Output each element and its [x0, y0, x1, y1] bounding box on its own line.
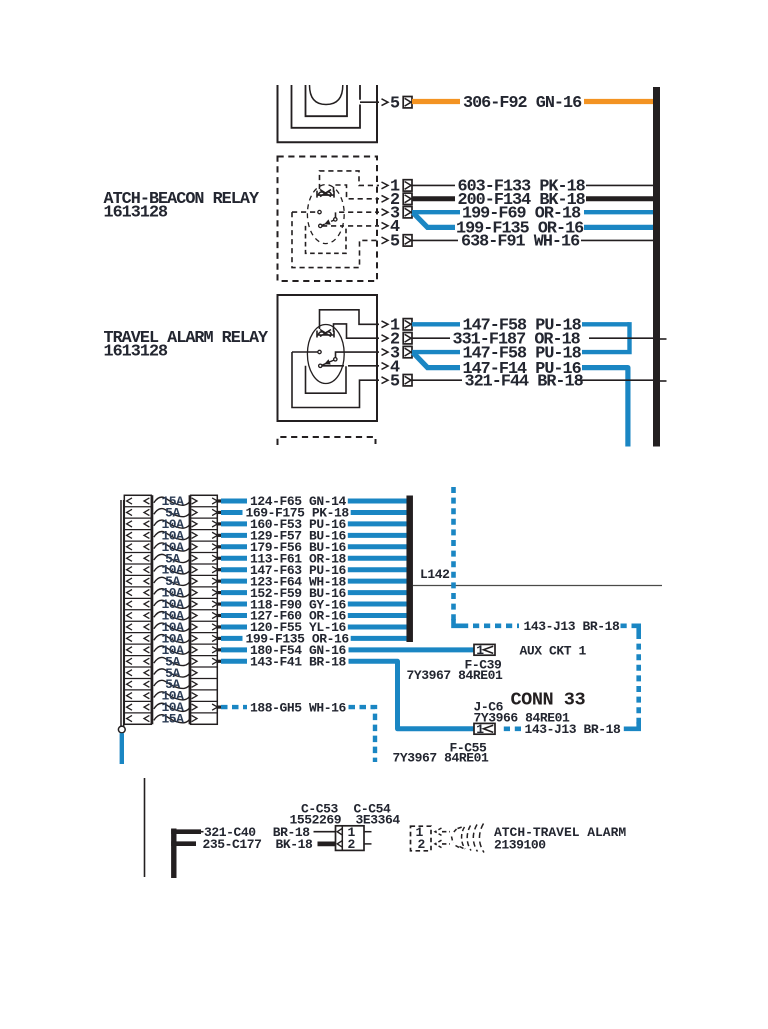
fuse row 13: right connector arrows	[192, 635, 197, 641]
fuse element squiggle row 13	[154, 635, 191, 643]
blue supply stub below node	[120, 733, 124, 764]
svg-text:1613128: 1613128	[104, 204, 169, 223]
fuse F row 1: left connector arrows	[127, 498, 132, 504]
pin arrow 2 (travel relay)	[382, 335, 389, 342]
wire 120-F55 YL-16 (blue)	[221, 624, 247, 629]
fuse row 7: right connector arrows	[192, 567, 197, 573]
pin arrow 3 (travel relay)	[382, 349, 389, 356]
beacon relay oval body	[307, 185, 344, 244]
wire 235-C177 BK-18 (thick stub into pin2)	[318, 842, 336, 847]
fuse row divider 2	[124, 517, 151, 519]
svg-text:7Y3967 84RE01: 7Y3967 84RE01	[393, 751, 489, 766]
svg-text:143-F41 BR-18: 143-F41 BR-18	[250, 655, 346, 670]
dashed pin 2 arrow	[435, 840, 442, 847]
fuse row 12: right connector arrows	[192, 624, 197, 630]
beacon relay lead pin4	[322, 225, 344, 227]
fuse row 15: right connector arrows	[192, 658, 197, 664]
fuse element squiggle row 18	[154, 692, 191, 700]
fuse F row 10: left connector arrows	[127, 601, 132, 607]
fuse row divider 6	[124, 563, 151, 565]
fuse panel supply bus (double vertical)	[120, 500, 122, 727]
svg-text:321-F44 BR-18: 321-F44 BR-18	[465, 373, 584, 392]
fuse row divider 8	[124, 586, 151, 588]
fuse row 18: right connector arrows	[192, 693, 197, 699]
fuse element squiggle row 7	[154, 566, 191, 574]
pin arrow 1 (travel relay)	[382, 321, 389, 328]
wire stub nub row 1	[217, 499, 221, 502]
fuse element squiggle row 2	[154, 509, 191, 517]
wire stub past bus, pin2 travel relay	[660, 338, 667, 340]
fuse element squiggle row 19	[154, 703, 191, 711]
fuse row divider 19	[124, 712, 151, 714]
fuse row 20: right connector arrows	[192, 715, 197, 721]
top relay outer box (cut off at page top)	[278, 85, 378, 142]
pin arrow 5 (travel relay)	[382, 377, 389, 384]
svg-text:L142: L142	[420, 567, 450, 582]
pin arrow 4 (beacon relay)	[382, 222, 389, 229]
fuse element squiggle row 5	[154, 543, 191, 551]
svg-text:306-F92 GN-16: 306-F92 GN-16	[463, 94, 582, 113]
top relay inner box	[306, 85, 348, 116]
fuse panel right box column frame	[191, 495, 218, 724]
fuse row divider 15	[124, 666, 151, 668]
beacon relay lead pin2 coil right	[334, 185, 380, 199]
wire 199-F135 OR-16 (blue, diagonal from pin 3 area)	[413, 213, 455, 228]
pin arrow 1 (beacon relay)	[382, 182, 389, 189]
wire 200-F134 BK-18 (thick black)	[412, 196, 455, 201]
C-C53 right ticks	[364, 831, 372, 833]
pin 5 connector	[403, 97, 412, 108]
fuse row 10: right connector arrows	[192, 601, 197, 607]
power bus bar (thick vertical)	[653, 87, 660, 447]
wire 124-F65 GN-14 (blue)	[221, 499, 247, 504]
C-C53 pin 2 wedge	[337, 841, 342, 848]
svg-text:15A: 15A	[161, 712, 184, 727]
wire stub nub row 10	[217, 602, 221, 605]
fuse F row 6: left connector arrows	[127, 555, 132, 561]
fuse holder mating bars	[151, 495, 153, 724]
travel relay inner box	[306, 366, 347, 393]
rule line L142	[413, 585, 662, 587]
travel relay oval body	[307, 325, 344, 384]
wire 321-F44 BR-18 (pin5)	[412, 379, 462, 381]
wire stub nub row 12	[217, 625, 221, 628]
fuse F row 7: left connector arrows	[127, 567, 132, 573]
wire stub nub row 3	[217, 522, 221, 525]
next component dashed box (cut off)	[278, 437, 376, 445]
wire 321-C40 BR-18	[201, 831, 204, 833]
travel relay outer box	[278, 295, 378, 421]
fuse row 14: right connector arrows	[192, 647, 197, 653]
fuse row divider 11	[124, 620, 151, 622]
fuse element squiggle row 1	[154, 497, 191, 505]
fuse row 4: right connector arrows	[192, 532, 197, 538]
fuse row 3: right connector arrows	[192, 521, 197, 527]
pin arrow 4 (travel relay)	[382, 363, 389, 370]
fuse row divider 18	[124, 700, 151, 702]
beacon relay lead pin3	[336, 212, 380, 217]
pin 5 connector (beacon relay)	[403, 235, 412, 246]
wire stub nub row 13	[217, 637, 221, 640]
wire stub past bus, pin5 travel relay	[660, 380, 667, 382]
beacon relay switch arm	[322, 220, 334, 225]
wire stub nub row 19	[217, 705, 221, 708]
dashed vertical right	[636, 633, 641, 724]
beacon relay coil symbol	[317, 190, 334, 198]
wire 143-F41 BR-18 (blue L to F-C55)	[221, 659, 247, 664]
fuse row divider 7	[124, 574, 151, 576]
fuse F row 16: left connector arrows	[127, 670, 132, 676]
svg-text:5: 5	[390, 373, 400, 392]
pin 3 connector (travel relay)	[403, 346, 412, 357]
travel relay lead pin3	[336, 352, 380, 357]
svg-text:1552269: 1552269	[290, 812, 342, 827]
blue vertical drop of 147-F14	[582, 368, 628, 447]
pin 2 connector (beacon relay)	[403, 193, 412, 204]
fuse row divider 14	[124, 655, 151, 657]
pin 1 connector (travel relay)	[403, 319, 412, 330]
fuse row 2: right connector arrows	[192, 509, 197, 515]
dashed corner right	[634, 626, 639, 633]
wire 188-GH5 WH-16 (dashed blue)	[221, 705, 247, 709]
fuse F row 2: left connector arrows	[127, 509, 132, 515]
fuse panel left box column frame	[124, 495, 151, 724]
beacon relay outer dashed box	[278, 157, 378, 282]
fuse row 19: right connector arrows	[192, 704, 197, 710]
fuse row divider 3	[124, 529, 151, 531]
wire 147-F14 PU-16 (blue, diagonal from pin3 area)	[413, 353, 460, 368]
wire stub nub row 7	[217, 568, 221, 571]
svg-text:143-J13 BR-18: 143-J13 BR-18	[524, 619, 620, 634]
wire stub nub row 4	[217, 534, 221, 537]
wire 169-F175 PK-18 (blue)	[221, 510, 243, 515]
wire 603-F133 PK-18	[412, 184, 455, 186]
svg-text:AUX CKT 1: AUX CKT 1	[520, 644, 587, 659]
wire 147-F58 PU-18 (pin3, blue)	[412, 350, 460, 354]
wire 129-F57 BU-16 (blue)	[221, 533, 247, 538]
fuse row divider 12	[124, 632, 151, 634]
wire 199-F135 OR-16 (blue)	[221, 636, 243, 641]
svg-text:235-C177: 235-C177	[203, 837, 262, 852]
fuse F row 3: left connector arrows	[127, 521, 132, 527]
wire 160-F53 PU-16 (blue)	[221, 521, 247, 526]
fuse F row 20: left connector arrows	[127, 715, 132, 721]
fuse F row 12: left connector arrows	[127, 624, 132, 630]
wire stub nub row 9	[217, 591, 221, 594]
blue U-link pin1 to pin3	[582, 322, 630, 352]
fuse row divider 9	[124, 597, 151, 599]
top relay pin 5 lead	[360, 101, 379, 103]
travel relay lead pin4	[322, 365, 344, 367]
dashed wire 143-J13 BR-18 horizontal	[462, 623, 519, 628]
fuse element squiggle row 12	[154, 623, 191, 631]
pin 5 connector (travel relay)	[403, 375, 412, 386]
svg-text:1: 1	[476, 643, 484, 658]
dashed corner bottom	[630, 722, 639, 729]
fuse row 17: right connector arrows	[192, 681, 197, 687]
fuse element squiggle row 8	[154, 577, 191, 585]
pin 3 connector (beacon relay)	[403, 207, 412, 218]
travel relay switch arm	[322, 360, 334, 365]
wire 638-F91 WH-16	[412, 239, 458, 241]
pin arrow 5	[382, 99, 389, 106]
wire 199-F69 OR-18 (blue)	[412, 210, 460, 214]
horn radiating dashes	[473, 825, 477, 852]
dashed corner	[454, 619, 463, 626]
fuse row 9: right connector arrows	[192, 590, 197, 596]
fuse element squiggle row 14	[154, 646, 191, 654]
wire 179-F56 BU-16 (blue)	[221, 544, 247, 549]
fuse F row 17: left connector arrows	[127, 681, 132, 687]
horn mouth arcs	[462, 827, 465, 849]
ATCH-TRAVEL ALARM dashed connector box	[411, 826, 432, 851]
wire 118-F90 GY-16 (blue)	[221, 602, 247, 607]
wire stub nub row 15	[217, 660, 221, 663]
wire 152-F59 BU-16 (blue)	[221, 590, 247, 595]
travel relay lead pin2 coil right	[334, 324, 380, 338]
wire 147-F63 PU-16 (blue)	[221, 567, 247, 572]
wire 147-F58 PU-18 (pin1, blue)	[412, 322, 460, 326]
travel relay lead to left contact	[292, 351, 318, 353]
pin arrow 2 (beacon relay)	[382, 195, 389, 202]
beacon relay lead pin5 + middle box	[292, 212, 379, 268]
pin 1 connector (beacon relay)	[403, 180, 412, 191]
svg-text:CONN 33: CONN 33	[511, 690, 586, 711]
svg-text:BK-18: BK-18	[276, 837, 313, 852]
svg-text:5: 5	[390, 233, 400, 252]
beacon relay switch contacts	[318, 210, 321, 213]
fuse element squiggle row 4	[154, 531, 191, 539]
fuse F row 13: left connector arrows	[127, 635, 132, 641]
fuse row divider 5	[124, 552, 151, 554]
fuse row 6: right connector arrows	[192, 555, 197, 561]
wire stub nub row 14	[217, 648, 221, 651]
fuse F row 8: left connector arrows	[127, 578, 132, 584]
fuse panel output bus bar (thick vertical)	[406, 496, 413, 643]
fuse row divider 16	[124, 677, 151, 679]
svg-text:2: 2	[418, 837, 426, 852]
connector C-C53 box	[336, 826, 365, 851]
connector F-C55 (1<)	[474, 723, 495, 734]
fuse row divider 17	[124, 689, 151, 691]
fuse element squiggle row 16	[154, 669, 191, 677]
svg-text:2: 2	[348, 837, 356, 852]
pin 2 connector (travel relay)	[403, 333, 412, 344]
wire stub nub row 6	[217, 557, 221, 560]
fuse F row 4: left connector arrows	[127, 532, 132, 538]
dashed wire 143-J13 BR-18 vertical from top	[451, 487, 456, 621]
travel relay lead pin5 + middle box	[292, 352, 379, 408]
svg-text:5: 5	[390, 95, 400, 114]
fuse F row 15: left connector arrows	[127, 658, 132, 664]
wire stub nub row 11	[217, 614, 221, 617]
travel relay lead pin1 over coil	[320, 310, 380, 329]
svg-text:188-GH5 WH-16: 188-GH5 WH-16	[250, 700, 346, 715]
fuse F row 11: left connector arrows	[127, 612, 132, 618]
svg-text:1613128: 1613128	[104, 343, 169, 362]
beacon relay lead pin1 over coil	[320, 171, 380, 189]
wire 113-F61 OR-18 (blue)	[221, 556, 247, 561]
svg-text:7Y3967 84RE01: 7Y3967 84RE01	[407, 668, 503, 683]
wire 331-F187 OR-18 (pin2)	[412, 337, 450, 339]
connector F-C39 (1<)	[474, 644, 495, 655]
fuse row divider 10	[124, 609, 151, 611]
fuse bus node circle	[118, 726, 125, 733]
pin arrow 5 (beacon relay)	[382, 237, 389, 244]
fuse row 5: right connector arrows	[192, 544, 197, 550]
svg-text:2139100: 2139100	[494, 837, 546, 852]
fuse element squiggle row 3	[154, 520, 191, 528]
travel relay coil symbol	[317, 330, 334, 338]
fuse row divider 13	[124, 643, 151, 645]
dashed pin 1 arrow	[435, 828, 442, 835]
svg-text:1: 1	[476, 722, 484, 737]
fuse row 16: right connector arrows	[192, 670, 197, 676]
wire stub nub row 8	[217, 580, 221, 583]
top relay coil U-curve	[310, 85, 343, 105]
alarm sounder dashed horn body	[453, 829, 457, 834]
fuse element squiggle row 20	[154, 715, 191, 723]
fuse element squiggle row 15	[154, 657, 191, 665]
svg-text:638-F91 WH-16: 638-F91 WH-16	[461, 233, 580, 252]
fuse F row 19: left connector arrows	[127, 704, 132, 710]
C-C53 pin 1 wedge	[337, 828, 342, 835]
dashed wire to F-C55	[621, 726, 630, 731]
travel relay switch contacts	[318, 350, 321, 353]
fuse element squiggle row 6	[154, 554, 191, 562]
fuse row 1: right connector arrows	[192, 498, 197, 504]
pin arrow 3 (beacon relay)	[382, 209, 389, 216]
wire 123-F64 WH-18 (blue)	[221, 579, 247, 584]
fuse F row 14: left connector arrows	[127, 647, 132, 653]
ground bus F-bar (thick)	[171, 829, 176, 879]
wire 127-F60 OR-16 (blue)	[221, 613, 247, 618]
wire stub nub row 2	[217, 511, 221, 514]
fuse row divider 1	[124, 506, 151, 508]
wire 306-F92 GN-16 (orange)	[412, 99, 460, 104]
bottom frame line (thin vertical)	[144, 778, 146, 877]
fuse F row 5: left connector arrows	[127, 544, 132, 550]
top relay middle box	[292, 85, 361, 128]
beacon relay inner box	[306, 226, 347, 253]
fuse F row 9: left connector arrows	[127, 590, 132, 596]
wire stub nub row 5	[217, 545, 221, 548]
fuse element squiggle row 10	[154, 600, 191, 608]
beacon relay lead to left contact	[292, 211, 318, 213]
fuse element squiggle row 17	[154, 680, 191, 688]
fuse row 11: right connector arrows	[192, 612, 197, 618]
wire 180-F54 GN-16 (blue to F-C39)	[221, 647, 247, 652]
fuse row 8: right connector arrows	[192, 578, 197, 584]
fuse row divider 4	[124, 540, 151, 542]
fuse F row 18: left connector arrows	[127, 693, 132, 699]
fuse element squiggle row 11	[154, 612, 191, 620]
fuse element squiggle row 9	[154, 589, 191, 597]
